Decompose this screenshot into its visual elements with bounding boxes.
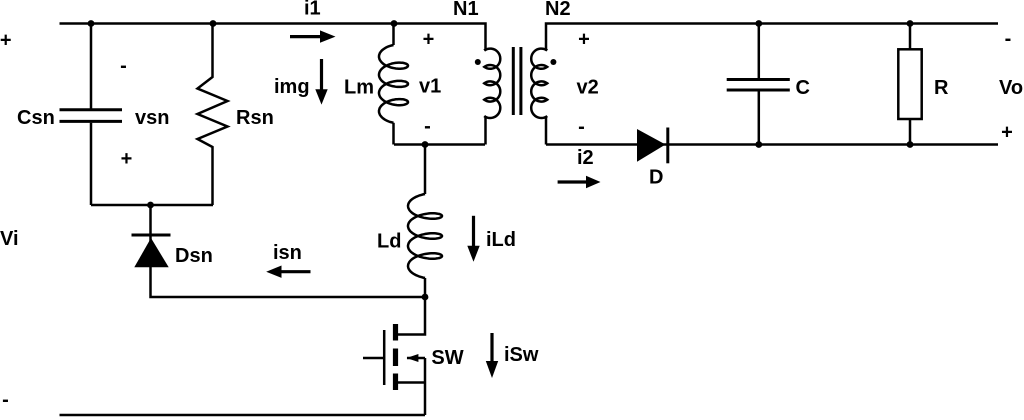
svg-text:i1: i1 xyxy=(304,0,321,19)
svg-text:R: R xyxy=(934,77,949,99)
svg-text:Dsn: Dsn xyxy=(175,245,213,267)
svg-text:v1: v1 xyxy=(419,76,441,98)
svg-text:+: + xyxy=(121,148,133,170)
svg-text:C: C xyxy=(796,77,810,99)
svg-text:-: - xyxy=(424,116,431,138)
svg-text:Ld: Ld xyxy=(377,231,401,253)
svg-text:Csn: Csn xyxy=(17,107,55,129)
svg-text:img: img xyxy=(274,76,310,98)
svg-text:SW: SW xyxy=(431,347,463,369)
svg-text:+: + xyxy=(423,28,435,50)
svg-text:+: + xyxy=(578,28,590,50)
svg-text:+: + xyxy=(1001,121,1013,143)
svg-text:-: - xyxy=(578,116,585,138)
svg-text:N1: N1 xyxy=(453,0,479,20)
svg-text:i2: i2 xyxy=(577,147,594,169)
svg-text:iSw: iSw xyxy=(504,344,539,366)
svg-text:isn: isn xyxy=(273,242,302,264)
svg-text:Vi: Vi xyxy=(0,228,19,250)
svg-text:D: D xyxy=(649,167,663,189)
svg-text:vsn: vsn xyxy=(135,107,169,129)
svg-text:N2: N2 xyxy=(545,0,571,20)
svg-text:Vo: Vo xyxy=(999,77,1023,99)
svg-text:iLd: iLd xyxy=(486,229,516,251)
svg-text:+: + xyxy=(0,29,12,51)
svg-text:v2: v2 xyxy=(577,77,599,99)
svg-text:-: - xyxy=(2,389,9,411)
svg-text:-: - xyxy=(120,55,127,77)
svg-text:Lm: Lm xyxy=(344,77,374,99)
svg-text:Rsn: Rsn xyxy=(236,107,274,129)
svg-text:-: - xyxy=(1005,28,1012,50)
